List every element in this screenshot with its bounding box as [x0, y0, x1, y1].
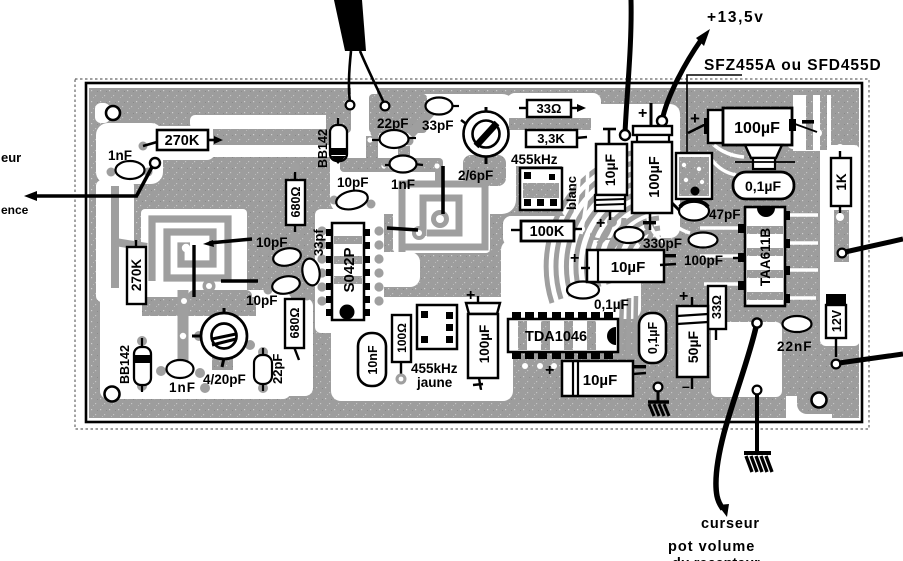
capacitor 10pF (middle) — [334, 175, 369, 212]
capacitor 330pF — [615, 227, 683, 251]
svg-text:S042P: S042P — [341, 247, 358, 292]
pad below coil L1 — [178, 295, 191, 308]
capacitor 33pF (top) — [422, 98, 459, 134]
coil L1 centre pad — [182, 244, 190, 252]
svg-text:+: + — [638, 105, 647, 122]
svg-text:33Ω: 33Ω — [710, 295, 724, 319]
resistor 33ohm (top) — [519, 100, 586, 117]
svg-text:du recepteur: du recepteur — [672, 556, 760, 561]
svg-text:22pF: 22pF — [270, 354, 285, 384]
svg-text:100µF: 100µF — [734, 120, 780, 137]
svg-text:–: – — [682, 378, 690, 394]
resistor 680ohm (lower) — [285, 299, 304, 360]
svg-text:SFZ455A ou SFD455D: SFZ455A ou SFD455D — [704, 57, 882, 74]
ground symbol below board — [744, 386, 772, 472]
svg-text:BB142: BB142 — [316, 129, 330, 168]
capacitor 10pF near coil L1 (upper) — [203, 235, 302, 268]
board substrate white regions — [95, 87, 860, 419]
copper traces over substrate — [107, 94, 854, 414]
svg-text:100K: 100K — [530, 224, 565, 240]
svg-text:TAA611B: TAA611B — [758, 228, 773, 287]
wire from cable to pad A — [346, 51, 355, 109]
svg-text:ence: ence — [1, 203, 29, 217]
electrolytic 10uF (vertical) — [595, 129, 627, 232]
filter SFZ455 — [676, 153, 712, 199]
ground symbol on board — [648, 383, 669, 416]
IC S042P — [326, 223, 370, 320]
capacitor 33pf near coil L1 — [300, 229, 326, 287]
svg-text:100µF: 100µF — [647, 156, 663, 198]
svg-text:0,1µF: 0,1µF — [594, 297, 629, 312]
svg-text:33Ω: 33Ω — [537, 101, 562, 116]
coil L1 (spiral) — [152, 219, 228, 288]
wire to +13,5v with arrowhead — [657, 29, 710, 126]
capacitor 0,1uF (disc) — [567, 282, 629, 313]
svg-text:100µF: 100µF — [477, 325, 492, 364]
electrolytic 100uF (top right, horizontal) — [688, 108, 817, 145]
capacitor 47pF — [672, 201, 741, 222]
svg-text:10pF: 10pF — [246, 293, 278, 308]
capacitor 22nF — [777, 316, 813, 354]
svg-text:455kHz: 455kHz — [411, 361, 458, 376]
svg-text:680Ω: 680Ω — [289, 187, 303, 218]
svg-text:12V: 12V — [830, 309, 844, 332]
svg-text:blanc: blanc — [564, 176, 579, 210]
wire to volume pot cursor — [716, 318, 762, 517]
svg-text:1nF: 1nF — [169, 380, 196, 395]
svg-text:47pF: 47pF — [709, 207, 741, 222]
svg-text:33pf: 33pf — [311, 229, 326, 256]
coil L2 centre loop — [431, 210, 449, 228]
svg-text:10pF: 10pF — [256, 235, 288, 250]
svg-text:10µF: 10µF — [611, 259, 646, 276]
capacitor 0,1uF (stadium, vertical) — [639, 313, 666, 363]
pointer into coil L2 — [387, 228, 418, 230]
IC TAA611B — [738, 207, 790, 306]
svg-text:eur: eur — [1, 150, 21, 165]
resistor 100K — [511, 221, 582, 241]
svg-text:0,1µF: 0,1µF — [745, 178, 782, 194]
output wire lower right — [832, 354, 903, 368]
transistor / filter can below 100uF — [735, 145, 795, 169]
capacitor 10nF (stadium) — [358, 333, 386, 386]
coil L1 entry pad — [203, 280, 216, 293]
electrolytic 10uF (horizontal, bottom) — [545, 361, 646, 396]
pointer from 2/6pF area into coil L2 centre — [441, 166, 445, 214]
svg-text:4/20pF: 4/20pF — [203, 372, 246, 387]
varicap BB142 (bottom) — [118, 338, 151, 392]
coil L2 (spiral) — [402, 184, 485, 252]
filter 455kHz blanc — [511, 152, 579, 210]
capacitor 10pF near coil L1 (lower) — [221, 274, 301, 308]
resistor 1K — [831, 151, 851, 213]
svg-text:+: + — [679, 288, 688, 305]
board copper pour — [89, 88, 859, 418]
supply wire leaving top — [620, 0, 631, 140]
filter 455kHz jaune — [411, 305, 458, 390]
svg-text:+: + — [570, 250, 579, 267]
svg-text:22pF: 22pF — [377, 116, 409, 131]
resistor 100ohm — [392, 315, 411, 385]
resistor 680ohm (upper) — [286, 172, 305, 232]
svg-text:100Ω: 100Ω — [395, 323, 409, 353]
capacitor 22pF (bottom, stadium) — [254, 348, 285, 391]
coil L2 entry pad — [412, 226, 426, 240]
svg-text:pot volume: pot volume — [668, 539, 755, 555]
svg-text:10µF: 10µF — [583, 372, 618, 389]
output wire upper right — [838, 239, 903, 257]
svg-text:22nF: 22nF — [777, 339, 813, 354]
svg-text:680Ω: 680Ω — [288, 308, 302, 339]
resistor 270K (vertical) — [127, 240, 146, 304]
svg-text:1nF: 1nF — [391, 177, 415, 192]
svg-text:TDA1046: TDA1046 — [525, 329, 587, 345]
trimmer 2/6pF — [458, 107, 509, 183]
svg-text:+13,5v: +13,5v — [707, 9, 764, 26]
svg-text:3,3K: 3,3K — [537, 131, 565, 146]
capacitor 100pF — [684, 233, 742, 269]
svg-text:0,1µF: 0,1µF — [646, 322, 660, 355]
svg-text:2/6pF: 2/6pF — [458, 168, 493, 183]
resistor 3,3K — [526, 130, 587, 147]
capacitor 0,1uF (stadium, right) — [733, 172, 794, 199]
board outline — [75, 79, 869, 429]
svg-text:+: + — [466, 287, 475, 304]
svg-text:100pF: 100pF — [684, 253, 723, 268]
wire from cable to pad B — [360, 51, 389, 110]
svg-text:jaune: jaune — [416, 375, 453, 390]
capacitor 1nF (bottom left) — [167, 360, 197, 395]
svg-text:270K: 270K — [165, 133, 200, 149]
capacitor 1nF (middle) — [385, 156, 423, 193]
pointer into coil L1 centre — [192, 245, 195, 297]
electrolytic 100uF (vertical) — [632, 103, 672, 230]
electrolytic 100uF (bottom middle) — [466, 287, 500, 397]
zener 12V — [826, 294, 846, 357]
resistor 33ohm (lower) — [708, 286, 726, 340]
svg-text:455kHz: 455kHz — [511, 152, 558, 167]
svg-text:10µF: 10µF — [602, 153, 618, 186]
svg-text:+: + — [690, 109, 700, 128]
svg-text:BB142: BB142 — [118, 345, 132, 384]
mounting hole bottom right — [812, 393, 827, 408]
left pointer (curseur pot frequence) — [24, 158, 160, 201]
svg-text:+: + — [545, 362, 554, 379]
capacitor 22pF (top) — [372, 116, 416, 148]
cable entering from top — [334, 0, 366, 51]
varicap BB142 (top) — [316, 118, 347, 168]
svg-text:10pF: 10pF — [337, 175, 369, 190]
svg-text:50µF: 50µF — [685, 330, 701, 363]
svg-text:270K: 270K — [129, 259, 144, 292]
electrolytic 10uF (horizontal, middle) — [570, 250, 676, 282]
trimmer 4/20pF — [192, 304, 247, 387]
IC TDA1046 — [508, 312, 618, 359]
resistor 270K (top) — [143, 130, 223, 150]
pointer from SFZ455A label to filter — [687, 75, 742, 156]
svg-text:curseur: curseur — [701, 516, 760, 532]
svg-text:10nF: 10nF — [366, 345, 380, 375]
mounting hole top left — [106, 106, 120, 120]
mounting hole bottom left — [105, 387, 120, 402]
capacitor 1nF (top left) — [108, 148, 145, 179]
svg-text:+: + — [596, 215, 605, 232]
svg-text:1nF: 1nF — [108, 148, 132, 163]
svg-text:33pF: 33pF — [422, 118, 454, 133]
electrolytic 50uF — [677, 288, 708, 394]
svg-text:1K: 1K — [834, 173, 849, 191]
